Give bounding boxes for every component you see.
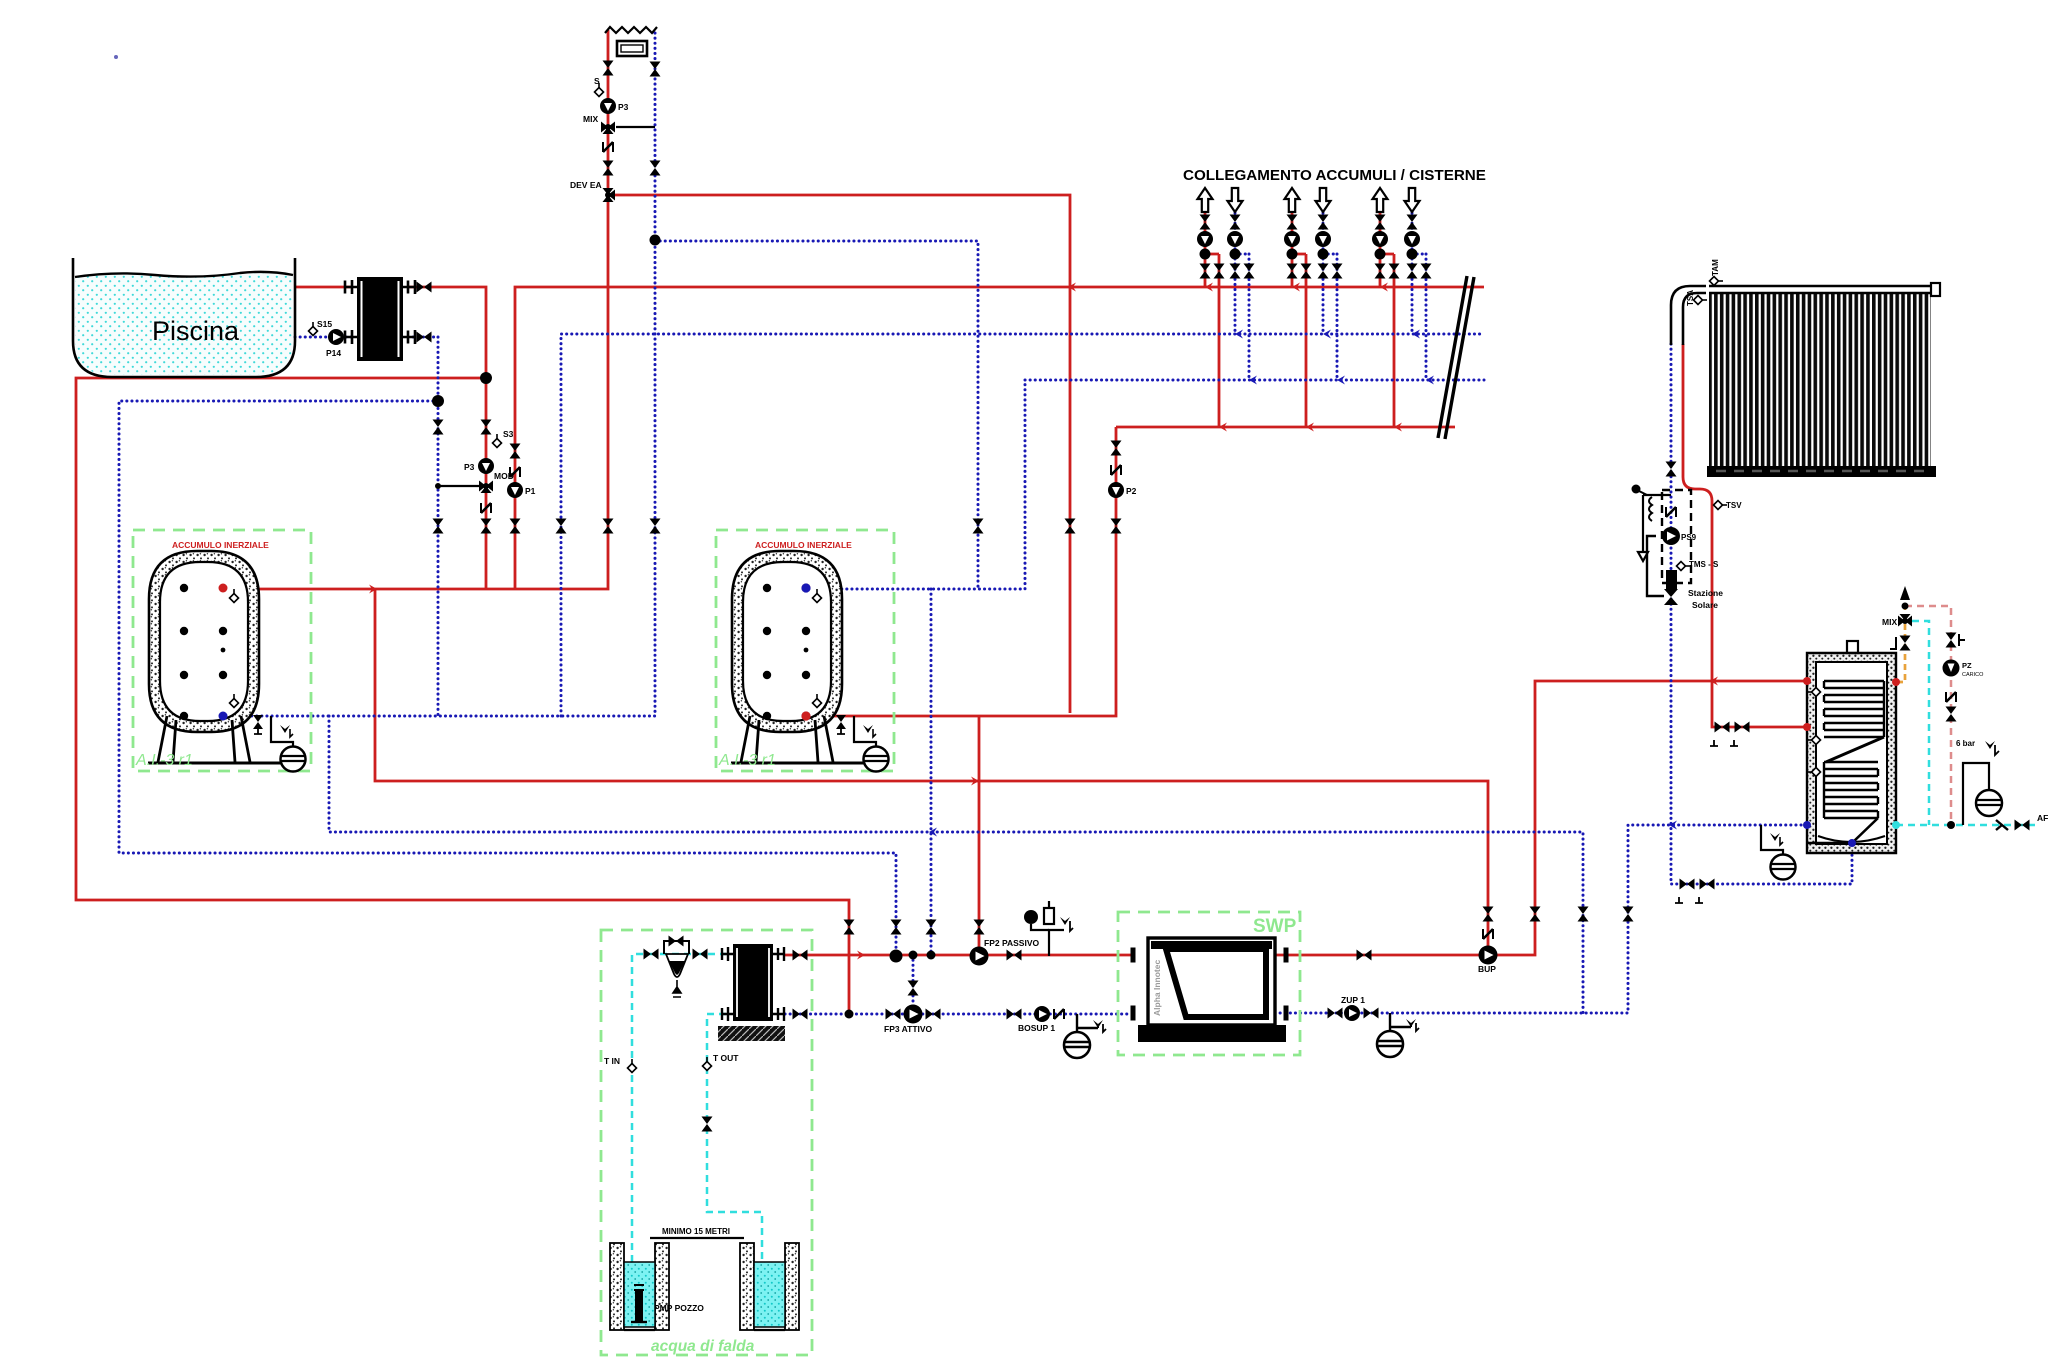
svg-text:COLLEGAMENTO ACCUMULI / CISTER: COLLEGAMENTO ACCUMULI / CISTERNE [1183,167,1486,184]
wire red pool-bottom bus y378 and big left loop x76/y900 [76,378,849,1014]
wire red bus y427 [1116,426,1455,429]
valves red y727 pair [1715,722,1730,733]
wire red bus y287 right segment with corner down at x515 [515,287,1484,589]
label MINIMO 15 METRI [650,1227,744,1238]
check valve x1488 y934 [1483,929,1493,939]
valve x1535 y914 [1530,907,1541,922]
wire red falda HX to SWP y955 [785,954,1131,957]
valve blue y1013 x1335 [1328,1008,1343,1019]
svg-text:MIX: MIX [1882,617,1897,627]
valve blue y1013 x1371 [1364,1008,1379,1019]
wire red DEV EA drop x608 [223,30,608,589]
DHW tank right [1803,641,1900,853]
svg-text:BUP: BUP [1478,964,1496,974]
pump BUP [1478,946,1498,975]
sensor T OUT [703,1053,740,1071]
wire blue SWP right y1013 to riser x1628 and y825 to tank [1275,825,1807,1013]
svg-text:Alpha Innotec: Alpha Innotec [1152,960,1162,1016]
valve orange below MIX [1890,636,1911,651]
svg-text:A.I.-3 r1: A.I.-3 r1 [135,752,193,769]
wire blue manifold column 2 [1323,213,1337,380]
valve x1488 y914 [1483,907,1494,922]
junction arrows on buses [369,283,1718,960]
well 2 [740,1243,799,1330]
tank A.I.-3 r1 left group [133,530,311,772]
svg-text:P2: P2 [1126,486,1137,496]
svg-text:PS9: PS9 [1681,533,1697,542]
filter + valve AF inlet [1996,813,2048,831]
stazione solare group [1632,485,1724,611]
heat exchanger falda [718,944,785,1041]
wire blue manifold column 3 [1412,213,1426,380]
svg-text:ACCUMULO INERZIALE: ACCUMULO INERZIALE [172,540,269,550]
node junction x438 y401 [432,395,444,407]
tiny top-left dot [114,55,118,59]
valve top blue x655 [650,62,661,77]
svg-text:TSA: TSA [1686,290,1695,306]
svg-text:FP2 PASSIVO: FP2 PASSIVO [984,938,1039,948]
expansion vessel ZUP line [1377,1013,1419,1057]
node junction x913 y955 [909,951,918,960]
manifold twin valves y271 [1200,264,1211,279]
sensor TAM [1710,259,1724,286]
wire blue tank2 y589 to x1025 riser [806,380,1025,589]
valve x896 y927 [891,920,902,935]
wire red manifold column 1 [1205,213,1219,427]
wire blue component drop x655 to y718 [223,33,655,716]
check valve x515 y472 [510,467,520,477]
wire pink recirculation line [1905,606,1951,825]
svg-text:Solare: Solare [1692,600,1718,610]
valve solar blue x1671 y469 [1666,462,1677,477]
svg-text:P3: P3 [464,462,475,472]
valve row y526 [433,519,444,534]
manifold junction nodes y253 [1200,249,1211,260]
pump P2 [1108,482,1137,498]
SWP heat pump group [1118,912,1300,1055]
manifold arrows [1198,188,1213,212]
svg-text:Stazione: Stazione [1688,588,1723,598]
wire blue pool y401 left loop x119 y853 [119,401,896,956]
wire blue bus y380 [1025,379,1484,382]
check valve x486 y508 [481,503,491,513]
svg-text:CARICO: CARICO [1962,672,1984,678]
wire red y195 to x1070 down to y713 [608,195,1070,713]
svg-text:S15: S15 [317,319,332,329]
svg-text:TAM: TAM [1711,259,1720,276]
valve pink x1951 y714 [1946,707,1957,722]
svg-text:T IN: T IN [604,1056,620,1066]
pump FP2 PASSIVO [970,938,1040,966]
wire red tank2 drop x979 [978,716,981,956]
valve x608 y168 [603,161,614,176]
svg-text:P14: P14 [326,348,341,358]
node junction x655 y240 [650,235,661,246]
node pink-cyan junction [1947,821,1955,829]
svg-text:MIX: MIX [583,114,598,124]
top center boiler stub component [605,27,657,56]
pump FP3 ATTIVO with valves [884,1005,941,1035]
solar collector panel [1671,283,1940,477]
diverter valve DEV EA [570,180,615,202]
wire blue tank1 drop x329 to bus y832 [329,716,1583,1013]
wire cyan well1 suction to falda HX [632,954,726,1262]
wire cyan DHW mixed water from MIX [1912,621,1929,825]
acqua di falda group [601,930,812,1355]
wire red tank2 port y716 line to x1116 [806,427,1116,716]
valve x655 y168 [650,161,661,176]
valve x438 y427 [433,420,444,435]
mixing valve MOD with tee to x438 [435,471,514,493]
svg-text:PMP POZZO: PMP POZZO [654,1303,704,1313]
wire cyan cold feed AF to tank bottom [1896,824,2035,827]
svg-text:PZ: PZ [1962,661,1972,670]
svg-text:AF: AF [2037,813,2048,823]
wire blue y241 to x978 down [655,241,978,589]
sensor S3 [493,429,514,448]
check valve pink x1951 y697 [1946,692,1956,702]
wire blue pool return x438 [437,337,440,716]
wire blue falda HX to SWP y1014 [785,1013,1131,1016]
pump P3 lower [464,458,494,474]
wire blue pool line pool to HX [295,336,438,339]
svg-text:P1: P1 [525,486,536,496]
break mark diagonals [1438,276,1474,439]
valve pink with handle [1946,633,1966,648]
valve pool HX hot side [417,282,432,293]
pump BOSUP 1 [1007,1009,1022,1020]
valve x1628 y914 [1623,907,1634,922]
svg-text:Piscina: Piscina [152,316,240,346]
wire red manifold column 3 [1380,213,1394,427]
valve x1116 y448 [1111,441,1122,456]
wire orange DHW hot from tank to MIX [1897,598,1905,682]
valve red y955 x1364 [1357,950,1372,961]
heat exchanger pool (plate HX) [345,277,415,361]
svg-text:SWP: SWP [1253,916,1297,937]
wire blue tank2 drop x931 [930,589,933,955]
wire red manifold column 2 [1292,213,1306,427]
mixing valve MIX top [583,114,655,134]
valve x486 y427 [481,420,492,435]
MAIN-LINES [76,30,1807,1014]
svg-text:TMS - S: TMS - S [1689,560,1719,569]
valve cyan x707 y1124 [702,1117,713,1132]
valve top red x608 [603,61,614,76]
sensor T IN [604,1056,637,1073]
valve x979 y927 [974,920,985,935]
wire blue solar station drop x1671 [1671,344,1852,884]
valve x515 y451 [510,444,521,459]
svg-text:MINIMO 15 METRI: MINIMO 15 METRI [662,1227,730,1236]
expansion vessel group below red y955 safety [1024,901,1073,956]
svg-text:T OUT: T OUT [713,1053,739,1063]
svg-text:S: S [594,76,600,86]
svg-text:BOSUP 1: BOSUP 1 [1018,1023,1055,1033]
node junction x896 y956 [890,950,903,963]
svg-text:acqua di falda: acqua di falda [651,1338,755,1355]
valve red falda x800 [793,950,808,961]
sensor TSV [1714,501,1743,511]
wire red x486 vertical P3/MOD branch [485,378,488,589]
svg-text:P3: P3 [618,102,629,112]
pool Piscina [73,258,295,377]
pump ZUP 1 [1341,995,1365,1021]
node dot above MIX + arrow [1902,603,1909,610]
valve x913 y988 [908,981,919,996]
valve x1583 y914 [1578,907,1589,922]
svg-text:DEV EA: DEV EA [570,180,602,190]
valve x849 y927 [844,920,855,935]
wire blue manifold column 1 [1235,213,1249,380]
pump P3 top [600,98,629,114]
safety group 6 bar [1956,739,2002,825]
wire blue bus y334 with corner x561 [561,334,1484,716]
valve pool HX cold side [417,332,432,343]
expansion vessel BOSUP line [1064,1014,1106,1058]
check valve x1116 y470 [1111,465,1121,475]
svg-text:FP3 ATTIVO: FP3 ATTIVO [884,1024,933,1034]
manifold pumps y236 [1197,231,1213,247]
svg-text:MOD: MOD [494,471,514,481]
sensor S [594,76,604,97]
sensor TSA [1686,290,1707,306]
wire red SWP out to BUP riser x1535 and y681 to tank [1275,681,1807,955]
valve red y955 x1014 [1007,950,1022,961]
wire red pool supply to HX and bus y287 left segment [295,287,486,378]
valve blue y1014 x1060 check [1054,1009,1064,1019]
wire blue FP3 drop x913 [912,955,915,1014]
check valve x608 [603,142,613,152]
well 1 [610,1243,704,1330]
wire cyan falda HX return to well2 [707,1014,762,1270]
node junction x486 y378 [480,372,492,384]
node junction x849 y1014 [845,1010,854,1019]
sensor S15 [309,319,333,336]
pump P1 [507,482,536,498]
manifold valves y219 [1200,215,1211,230]
valve x931 y927 [926,920,937,935]
svg-text:S3: S3 [503,429,514,439]
mixer MIX DHW [1882,614,1912,627]
wire red collector downcomer [1683,344,1807,727]
expansion vessel solar tank bottom [1761,825,1796,880]
valves blue y884 pair [1680,879,1695,890]
wire red tank1 branch x375 down to bus y781 [375,589,1488,955]
filter on cyan suction [644,936,708,998]
node junction x931 y955 [927,951,936,960]
pump P14 [326,329,344,358]
svg-text:ZUP 1: ZUP 1 [1341,995,1365,1005]
svg-text:6 bar: 6 bar [1956,739,1975,748]
gauge PZ pink line [1943,660,1985,679]
tank A.I.-3 r1 right group [716,530,894,772]
valve blue falda x800 [793,1009,808,1020]
svg-text:TSV: TSV [1726,501,1742,510]
